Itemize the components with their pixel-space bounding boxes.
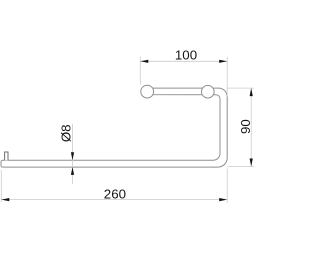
arrow left of dimension 100: [140, 60, 148, 63]
extension line left of dimension 100: [139, 57, 141, 85]
arrow bottom of diameter dimension (pointing up): [71, 167, 74, 175]
arrow left of dimension 260: [1, 198, 9, 201]
arrow right of dimension 100: [219, 60, 227, 63]
leader line of diameter dimension: [72, 124, 74, 184]
dimension line 90: [250, 88, 252, 166]
dimension line 260: [1, 199, 227, 201]
extension line right of dimension 100: [226, 57, 228, 97]
extension line right of dimension 260: [226, 169, 228, 203]
svg-text:Ø8: Ø8: [58, 124, 73, 142]
dimension line 100: [140, 60, 227, 62]
arrow top of dimension 90: [250, 88, 253, 96]
extension line left of dimension 260: [0, 170, 2, 202]
arrow right of dimension 260: [219, 198, 227, 201]
svg-text:100: 100: [175, 48, 197, 63]
svg-text:260: 260: [104, 187, 126, 202]
mounting post left (circle): [141, 85, 154, 98]
end tab pin at left end of tube: [5, 152, 8, 160]
extension line bottom of dimension 90: [228, 166, 254, 168]
towel bar tube body: [1, 88, 227, 167]
arrow bottom of dimension 90: [250, 159, 253, 167]
svg-text:90: 90: [238, 119, 253, 134]
arrow top of diameter dimension (pointing down): [71, 152, 74, 160]
mounting post right (circle): [202, 85, 215, 98]
extension line top of dimension 90: [228, 87, 254, 89]
